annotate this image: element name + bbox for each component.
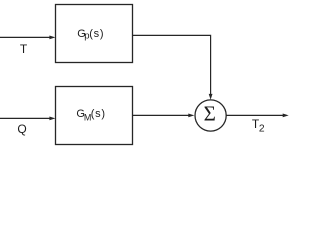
svg-text:Q: Q — [17, 122, 26, 136]
block Gp(s) — [56, 5, 133, 63]
label Gp(s) — [77, 28, 104, 42]
wire input T — [0, 36, 55, 40]
svg-text:(s): (s) — [89, 28, 104, 40]
wire input Q — [0, 117, 55, 121]
svg-text:2: 2 — [259, 124, 265, 135]
block GM(s) — [56, 87, 133, 145]
svg-text:Σ: Σ — [204, 101, 216, 125]
node T2 — [252, 117, 265, 135]
label GM(s) — [76, 108, 105, 123]
wire GM output to summer — [133, 114, 195, 118]
wire output T2 — [226, 114, 288, 118]
svg-text:(s): (s) — [91, 108, 106, 120]
node Q — [17, 122, 26, 136]
wire Gp output to summer — [133, 35, 213, 99]
svg-text:T: T — [20, 42, 28, 56]
summing junction U1 — [195, 100, 226, 131]
node T — [20, 42, 28, 56]
